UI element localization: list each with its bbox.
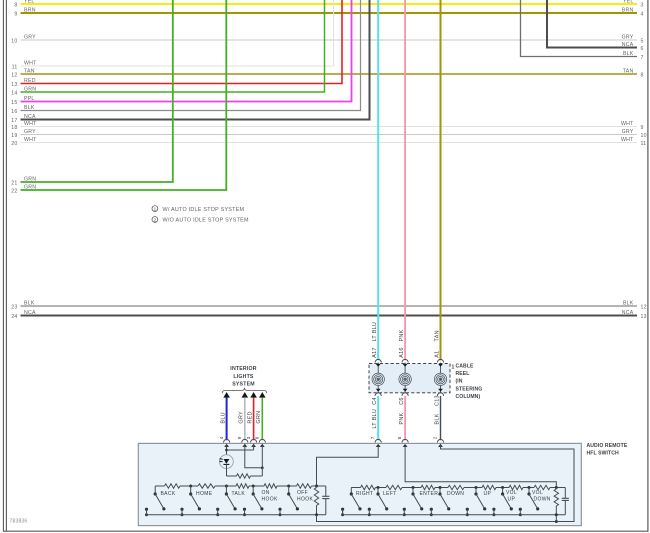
svg-text:BACK: BACK	[161, 491, 176, 497]
svg-text:13: 13	[11, 82, 17, 88]
svg-text:11: 11	[12, 64, 18, 70]
svg-text:22: 22	[11, 188, 17, 194]
switch SW ENTER	[412, 486, 415, 489]
wire GRY to interior lights system, pin 9	[242, 392, 249, 398]
svg-text:19: 19	[11, 133, 17, 139]
svg-text:COLUMN): COLUMN)	[456, 394, 481, 400]
svg-text:DOWN: DOWN	[447, 491, 464, 497]
svg-text:16: 16	[11, 109, 17, 115]
svg-text:3: 3	[246, 436, 251, 439]
svg-text:(IN: (IN	[456, 379, 463, 385]
svg-text:C6: C6	[399, 397, 405, 405]
cable reel bottom connector under A17	[377, 386, 379, 393]
svg-text:UP: UP	[484, 491, 492, 497]
svg-text:8: 8	[255, 436, 260, 439]
svg-text:8: 8	[641, 72, 644, 78]
left ladder bus	[155, 485, 164, 487]
svg-text:BRN: BRN	[622, 7, 634, 13]
HFL box top connector pin 8 GRN	[259, 439, 265, 442]
svg-text:RED: RED	[248, 411, 254, 423]
svg-text:BLK: BLK	[623, 51, 634, 57]
switch SW LEFT	[377, 486, 380, 489]
svg-text:DOWN: DOWN	[534, 497, 551, 503]
svg-text:C13: C13	[434, 395, 440, 406]
svg-text:TAN: TAN	[623, 68, 634, 74]
cable reel bottom connector under A16	[404, 386, 406, 393]
cable reel bottom connector under A1	[440, 386, 442, 393]
HFL box top connector pin 4 BLU	[224, 439, 230, 442]
switch SW VOL DOWN	[528, 486, 531, 489]
svg-text:1: 1	[154, 206, 157, 211]
audio remote HFL switch box U2	[138, 443, 581, 525]
cable reel top connector A17	[375, 359, 381, 362]
vertical wire TAN to cable reel A1	[440, 0, 442, 360]
resistor R12	[509, 485, 523, 489]
svg-text:14: 14	[11, 90, 17, 96]
svg-text:W/ AUTO IDLE STOP SYSTEM: W/ AUTO IDLE STOP SYSTEM	[163, 207, 245, 213]
svg-text:A16: A16	[399, 347, 405, 358]
svg-text:BLK: BLK	[623, 300, 634, 306]
switch SW UP	[475, 486, 478, 489]
svg-text:1: 1	[452, 365, 455, 371]
svg-text:STEERING: STEERING	[456, 386, 483, 392]
page border right	[647, 0, 649, 532]
vertical wire PNK to cable reel A16	[404, 0, 406, 360]
LED D1	[220, 455, 234, 469]
svg-text:RIGHT: RIGHT	[356, 491, 373, 497]
resistor R5	[297, 484, 312, 488]
svg-text:LEFT: LEFT	[383, 491, 397, 497]
resistor R0 (LED series)	[227, 475, 237, 477]
svg-text:VOL: VOL	[532, 490, 543, 496]
resistor R10	[448, 485, 464, 489]
capacitor C2 (right)	[564, 488, 566, 499]
svg-text:24: 24	[11, 314, 17, 320]
svg-text:AUDIO REMOTE: AUDIO REMOTE	[587, 443, 628, 449]
svg-text:LT BLU: LT BLU	[372, 409, 378, 429]
svg-text:GRN: GRN	[256, 411, 262, 424]
common lower rail to pin 2	[317, 444, 575, 522]
svg-text:2: 2	[433, 436, 438, 439]
wire PNK pin8 to right ladder	[405, 445, 556, 488]
switch SW HOME	[189, 485, 192, 488]
legend footnote 1: W/ AUTO IDLE STOP SYSTEM	[152, 206, 158, 212]
page border bottom	[3, 530, 648, 532]
svg-text:REEL: REEL	[456, 371, 470, 377]
left ladder bottom rail	[147, 509, 326, 515]
svg-text:VOL: VOL	[506, 490, 517, 496]
wire PNK reel C6 to HFL pin 8	[404, 396, 406, 440]
page border left inner	[5, 0, 7, 532]
HFL box top connector pin 9 GRY	[242, 439, 248, 442]
switch SW VOL UP	[501, 486, 504, 489]
resistor R9	[421, 485, 435, 489]
svg-text:783836: 783836	[10, 519, 28, 525]
svg-text:ENTER: ENTER	[420, 491, 439, 497]
resistor R1	[165, 484, 181, 488]
svg-text:18: 18	[11, 125, 17, 131]
svg-text:NCA: NCA	[622, 42, 634, 48]
resistor R14 (right shunt)	[555, 488, 557, 490]
capacitor C1 (left)	[325, 486, 327, 496]
svg-text:13: 13	[641, 314, 647, 320]
wire LED cathode to resistor R0	[226, 464, 228, 476]
wire RED to interior lights system, pin 3	[250, 392, 257, 398]
svg-text:11: 11	[641, 141, 647, 147]
svg-text:LIGHTS: LIGHTS	[233, 374, 254, 380]
svg-text:C4: C4	[372, 397, 378, 405]
wire row 7 BLK (right), elbow from top at x=520.5	[521, 0, 638, 57]
switch SW TALK	[225, 485, 228, 488]
resistor R4	[264, 484, 277, 488]
svg-text:WHT: WHT	[621, 121, 634, 127]
wire row 6 NCA (right), elbow from top at x=547	[547, 0, 637, 48]
svg-text:CABLE: CABLE	[456, 363, 475, 369]
cable reel coil A17	[372, 373, 384, 385]
svg-text:TAN: TAN	[434, 330, 440, 341]
svg-text:LT BLU: LT BLU	[372, 322, 378, 342]
svg-text:8: 8	[14, 2, 17, 8]
switch SW RIGHT	[350, 488, 352, 495]
cable reel box U1 (in steering column)	[369, 364, 450, 393]
right ladder bus	[351, 487, 360, 489]
svg-text:15: 15	[11, 100, 17, 106]
svg-text:BLK: BLK	[434, 413, 440, 424]
svg-text:3: 3	[641, 2, 644, 8]
svg-text:W/O AUTO IDLE STOP SYSTEM: W/O AUTO IDLE STOP SYSTEM	[163, 218, 249, 224]
HFL box top connector pin 2 BLK	[437, 439, 443, 442]
wire RED pin3 stub	[253, 444, 255, 450]
cable reel top connector A1	[437, 359, 443, 362]
svg-text:NCA: NCA	[622, 310, 634, 316]
svg-text:7: 7	[370, 436, 375, 439]
svg-text:21: 21	[11, 180, 17, 186]
svg-text:8: 8	[397, 436, 402, 439]
wire GRY pin9 stub	[244, 444, 246, 450]
svg-text:HOME: HOME	[196, 491, 213, 497]
wire pin9 down to green net	[245, 450, 262, 468]
svg-text:6: 6	[641, 46, 644, 52]
HFL box top connector pin 3 RED	[251, 439, 257, 442]
cable reel coil A1	[434, 373, 446, 385]
svg-text:23: 23	[11, 304, 17, 310]
vertical wire LT BLU (cyan) to cable reel A17	[377, 0, 379, 360]
svg-text:A1: A1	[434, 351, 440, 358]
svg-text:5: 5	[641, 38, 644, 44]
resistor R7	[361, 485, 376, 489]
wire BLK reel C13 to HFL pin 2	[440, 396, 442, 440]
resistor R11	[482, 485, 496, 489]
svg-text:GRY: GRY	[239, 411, 245, 424]
right ladder bottom rail	[343, 509, 566, 515]
svg-text:20: 20	[11, 141, 17, 147]
svg-text:YEL: YEL	[623, 0, 634, 4]
page border left outer	[2, 0, 4, 532]
switch SW BACK	[154, 486, 156, 494]
svg-text:PNK: PNK	[399, 412, 405, 424]
svg-text:9: 9	[14, 11, 17, 17]
svg-text:INTERIOR: INTERIOR	[230, 366, 256, 372]
svg-text:7: 7	[641, 55, 644, 61]
legend footnote 2: W/O AUTO IDLE STOP SYSTEM	[152, 217, 158, 223]
HFL box top connector pin 7 LT BLU	[375, 439, 381, 442]
wire GRN to interior lights system, pin 8	[259, 392, 266, 398]
wire pin4 junction to pin3	[227, 449, 254, 451]
resistor R2	[198, 484, 215, 488]
svg-text:UP: UP	[508, 497, 516, 503]
resistor R6 (left shunt)	[316, 486, 318, 488]
resistor R3	[236, 484, 249, 488]
svg-text:HOOK: HOOK	[262, 497, 278, 503]
svg-text:4: 4	[641, 11, 644, 17]
svg-text:TALK: TALK	[232, 491, 246, 497]
resistor R8	[386, 485, 402, 489]
switch SW ON HOOK	[252, 485, 255, 488]
svg-text:4: 4	[219, 436, 224, 439]
svg-text:12: 12	[11, 72, 17, 78]
resistor R13	[534, 485, 550, 489]
svg-text:PNK: PNK	[399, 329, 405, 341]
brace over interior lights arrows	[222, 388, 266, 394]
cable reel coil A16	[399, 373, 411, 385]
svg-text:GRY: GRY	[622, 129, 634, 135]
svg-text:2: 2	[154, 217, 157, 222]
svg-text:BLU: BLU	[221, 412, 227, 423]
svg-text:ON: ON	[262, 490, 270, 496]
wire GRN pin8 down	[261, 444, 263, 476]
svg-text:HFL SWITCH: HFL SWITCH	[587, 451, 620, 457]
wire BLU to interior lights system, pin 4	[223, 392, 230, 398]
svg-text:A17: A17	[372, 347, 378, 358]
svg-text:HOOK: HOOK	[297, 497, 313, 503]
svg-text:10: 10	[641, 133, 647, 139]
wire LT BLU pin7 to left ladder	[317, 445, 379, 486]
svg-text:GRY: GRY	[622, 34, 634, 40]
svg-text:9: 9	[641, 125, 644, 131]
HFL box top connector pin 8 PNK	[402, 439, 408, 442]
svg-text:12: 12	[641, 304, 647, 310]
switch SW DOWN	[439, 486, 442, 489]
svg-text:SYSTEM: SYSTEM	[232, 382, 255, 388]
svg-text:OFF: OFF	[297, 490, 308, 496]
switch SW OFF HOOK	[287, 485, 290, 488]
cable reel top connector A16	[402, 359, 408, 362]
svg-text:10: 10	[11, 38, 17, 44]
svg-text:9: 9	[237, 436, 242, 439]
wire LT BLU reel C4 to HFL pin 7	[377, 396, 379, 440]
svg-text:WHT: WHT	[621, 137, 634, 143]
wire BLU pin4 into LED	[226, 444, 228, 455]
svg-text:17: 17	[11, 118, 17, 124]
